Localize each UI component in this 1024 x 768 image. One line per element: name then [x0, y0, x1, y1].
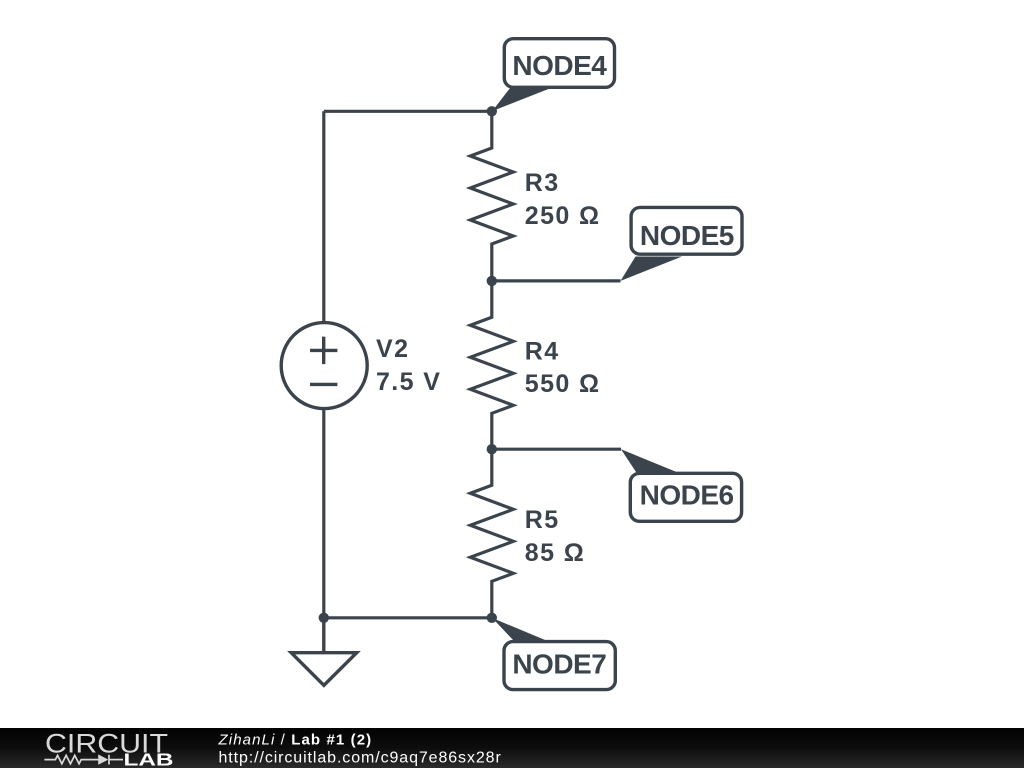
node flag NODE5: [621, 207, 743, 281]
svg-text:250 Ω: 250 Ω: [525, 202, 601, 230]
svg-text:85 Ω: 85 Ω: [525, 539, 585, 567]
voltage source V2: [281, 323, 367, 409]
wire left upper (V2 top lead): [322, 111, 325, 322]
svg-text:http://circuitlab.com/c9aq7e86: http://circuitlab.com/c9aq7e86sx28r: [219, 749, 502, 766]
svg-text:R5: R5: [525, 506, 560, 534]
wire NODE5 stub: [492, 279, 621, 282]
node flag NODE7: [492, 618, 615, 690]
logo resistor-diode mark: [44, 755, 123, 765]
ground: [291, 618, 357, 686]
wire top horizontal: [324, 110, 492, 113]
footer bar: [0, 728, 1024, 768]
node flag NODE6: [621, 449, 742, 521]
svg-text:ZihanLi / Lab #1 (2): ZihanLi / Lab #1 (2): [218, 732, 373, 749]
svg-text:NODE7: NODE7: [512, 649, 606, 680]
wire NODE6 stub: [492, 448, 621, 451]
svg-text:550 Ω: 550 Ω: [525, 370, 601, 398]
resistor R5: [470, 449, 513, 618]
svg-text:NODE5: NODE5: [640, 220, 734, 251]
svg-text:NODE6: NODE6: [640, 480, 734, 511]
wire left lower (V2 bottom lead): [322, 409, 325, 618]
resistor R4: [470, 281, 513, 449]
node junction dot NODE6: [487, 444, 497, 454]
svg-text:7.5 V: 7.5 V: [376, 368, 441, 396]
node junction dot NODE7 left: [319, 613, 329, 623]
resistor R3: [470, 111, 513, 281]
node junction dot NODE4: [487, 106, 497, 116]
svg-text:V2: V2: [376, 335, 409, 363]
svg-text:R4: R4: [525, 338, 560, 366]
wire bottom horizontal: [324, 616, 492, 619]
node junction dot NODE5: [487, 276, 497, 286]
node junction dot NODE7 right: [487, 613, 497, 623]
svg-text:NODE4: NODE4: [512, 50, 607, 81]
node flag NODE4: [492, 39, 614, 111]
svg-text:R3: R3: [525, 169, 560, 197]
svg-text:LAB: LAB: [124, 749, 174, 768]
